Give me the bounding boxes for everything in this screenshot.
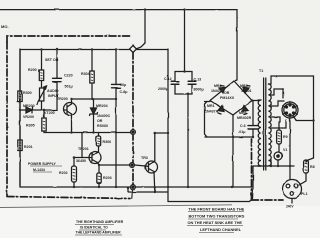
svg-text:TR201: TR201 [78,147,89,151]
svg-text:T1: T1 [259,69,263,73]
svg-text:1N401: 1N401 [211,89,222,93]
svg-text:MR402R: MR402R [237,116,252,120]
svg-text:R8: R8 [310,165,315,169]
svg-text:R201: R201 [24,145,33,149]
svg-text:AUDIO: AUDIO [47,89,59,93]
svg-text:BOTTOM TWO TRANSISTORS: BOTTOM TWO TRANSISTORS [189,214,245,219]
svg-text:MO.: MO. [1,24,9,29]
svg-text:OR: OR [224,91,230,95]
svg-text:ON THE HEAT SINK ARE THE: ON THE HEAT SINK ARE THE [188,220,243,225]
svg-text:PM14XX: PM14XX [220,96,235,100]
svg-text:R300: R300 [23,91,32,95]
svg-text:501μ: 501μ [65,85,73,89]
svg-text:TR200: TR200 [57,97,68,101]
svg-text:R203: R203 [103,176,112,180]
svg-text:C.12: C.12 [164,77,172,81]
svg-text:C.6: C.6 [240,124,246,128]
svg-text:SET ON: SET ON [45,58,59,62]
svg-text:OR: OR [97,119,103,123]
svg-text:-01μ: -01μ [238,130,245,134]
svg-text:MR204: MR204 [96,104,108,108]
svg-text:MR200: MR200 [23,104,35,108]
svg-text:R304: R304 [81,72,90,76]
svg-text:C-8μ: C-8μ [120,90,128,94]
svg-text:THE FRONT BOARD HAS THE: THE FRONT BOARD HAS THE [189,206,245,211]
svg-text:R305: R305 [26,124,35,128]
svg-text:PL1: PL1 [301,192,308,196]
svg-text:R202: R202 [59,171,68,175]
svg-text:50μ: 50μ [120,83,126,87]
svg-text:THE RIGHTHAND AMPLIFIER: THE RIGHTHAND AMPLIFIER [76,220,124,224]
svg-text:TR3: TR3 [141,156,148,160]
svg-text:240V: 240V [286,205,294,209]
svg-text:1N400C: 1N400C [97,114,111,118]
svg-text:MR3: MR3 [240,84,248,88]
svg-text:C.13: C.13 [194,78,202,82]
svg-text:R306: R306 [103,140,112,144]
svg-text:IS IDENTICAL TO: IS IDENTICAL TO [80,226,108,230]
svg-text:VR200: VR200 [23,115,34,119]
svg-text:2000μ: 2000μ [158,87,168,91]
svg-text:36450: 36450 [76,159,86,163]
svg-text:R9: R9 [283,135,288,139]
svg-text:8000μ: 8000μ [194,88,204,92]
svg-text:MR1: MR1 [207,104,215,108]
svg-text:POWER SUPPLY: POWER SUPPLY [28,162,57,166]
svg-text:M-1434: M-1434 [33,168,45,172]
svg-text:R200: R200 [28,68,37,72]
svg-text:C220: C220 [64,74,73,78]
svg-text:1N401: 1N401 [241,89,252,93]
svg-text:1N437A: 1N437A [205,110,219,114]
svg-text:RS060: RS060 [97,124,108,128]
svg-text:THE LEFTHAND AMPLIFIER: THE LEFTHAND AMPLIFIER [76,231,122,235]
svg-text:LEFTHAND CHANNEL: LEFTHAND CHANNEL [200,227,242,232]
svg-text:MR6: MR6 [239,111,247,115]
svg-text:VT200: VT200 [44,111,55,115]
svg-text:V1: V1 [283,148,287,152]
svg-text:MR2: MR2 [214,84,222,88]
